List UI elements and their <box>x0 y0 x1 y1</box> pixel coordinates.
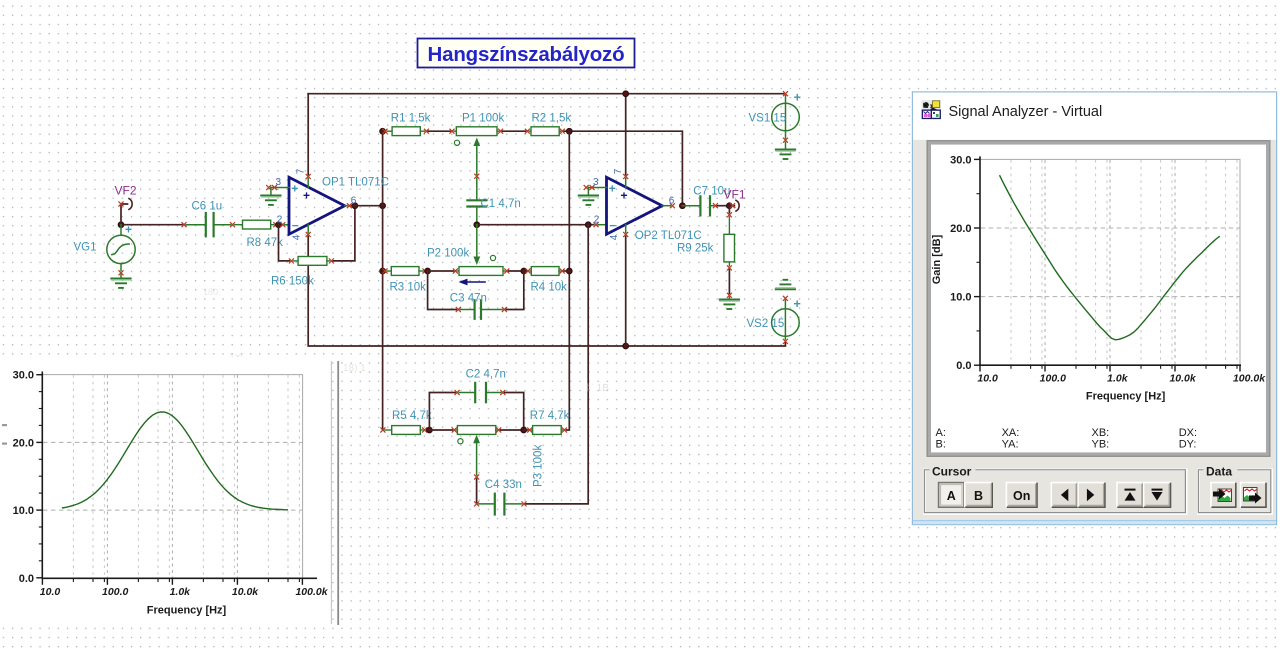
resistor R6 <box>293 257 329 266</box>
svg-text:B:: B: <box>936 439 946 451</box>
wire P3 wiper to C4 <box>476 479 478 504</box>
gain curve <box>1000 175 1220 340</box>
svg-text:+: + <box>621 189 628 203</box>
svg-text:−: − <box>609 218 616 232</box>
pin R1 left x-mark <box>383 129 387 133</box>
potentiometer P2 wiper arrow from C1 <box>473 225 480 265</box>
pin R6 left x-mark <box>289 259 293 263</box>
svg-text:+: + <box>125 223 132 237</box>
node P2 / R4 / C3 junction <box>521 268 527 274</box>
node C1 / P2 wiper / OP2 pin2 row <box>474 222 480 228</box>
resistor R2 <box>529 127 560 136</box>
button A (pressed) <box>939 483 964 508</box>
pin R7 left x-mark <box>528 428 532 432</box>
svg-text:6: 6 <box>351 196 357 207</box>
svg-text:4: 4 <box>292 234 303 240</box>
pin R7 right x-mark <box>562 428 566 432</box>
pin OP1 pin2 x-mark <box>281 223 285 227</box>
svg-text:DY:: DY: <box>1179 439 1197 451</box>
potentiometer P3 <box>456 426 496 444</box>
svg-text:B: B <box>974 489 983 503</box>
svg-text:18) 1: 18) 1 <box>343 363 366 374</box>
pin C4 right x-mark <box>522 502 526 506</box>
plot panel sunken frame <box>926 140 1270 457</box>
resistor R3 <box>387 267 423 276</box>
wire R6 feedback loop <box>279 225 290 261</box>
wire R6 to OP1 output <box>333 206 355 261</box>
resistor R8 <box>235 220 274 229</box>
svg-text:30.0: 30.0 <box>13 370 34 382</box>
svg-text:Gain [dB]: Gain [dB] <box>931 234 943 284</box>
pin C3 right x-mark <box>502 307 506 311</box>
x axis ticks <box>980 365 1240 371</box>
horizontal gridlines 10dB 20dB (dashed) <box>43 442 302 510</box>
svg-text:2: 2 <box>277 215 283 226</box>
wire OP2 pin7 to top rail <box>625 94 627 175</box>
wire OP2 pin4 to bottom rail <box>625 237 627 347</box>
svg-text:6: 6 <box>669 196 675 207</box>
title box Hangszinszabalyozo <box>418 39 635 68</box>
generator VG1 <box>107 225 135 271</box>
window body <box>912 92 1277 526</box>
minor vertical gridlines (dashed) <box>1011 160 1237 365</box>
pin P1 left x-mark <box>450 129 454 133</box>
button On <box>1006 483 1037 508</box>
svg-text:2: 2 <box>594 215 600 226</box>
svg-text:100.0k: 100.0k <box>295 586 328 598</box>
svg-text:R1 1,5k: R1 1,5k <box>391 113 431 125</box>
wire R9 to ground <box>728 270 730 293</box>
svg-text:Hangszínszabályozó: Hangszínszabályozó <box>428 43 625 66</box>
svg-text:A:: A: <box>936 427 946 439</box>
svg-text:4: 4 <box>609 234 620 240</box>
y axis ticks <box>36 375 42 578</box>
wire P2 to R4 junction <box>509 270 524 272</box>
svg-text:OP2 TL071C: OP2 TL071C <box>635 230 702 242</box>
svg-text:0.0: 0.0 <box>19 573 34 585</box>
op-amp OP1 <box>261 168 389 240</box>
wire top supply rail <box>308 93 783 95</box>
terminal VF1 stub and arc <box>729 205 734 207</box>
x axis labels <box>40 586 329 598</box>
node bottom rail / OP2 pin4 junction <box>623 343 629 349</box>
node OP2 pin2 / C4 junction <box>585 222 591 228</box>
wire bottom supply rail <box>308 237 785 347</box>
wire C7 to VF1 <box>717 205 729 207</box>
svg-text:1.0k: 1.0k <box>1107 373 1129 385</box>
pin OP1 3 stub + ground <box>271 187 289 189</box>
button jump-min <box>1144 483 1171 508</box>
pin R4 left x-mark <box>526 269 530 273</box>
svg-text:On: On <box>1013 489 1030 503</box>
svg-text:0.0: 0.0 <box>956 360 971 372</box>
pin R9 bottom x-mark <box>727 266 731 270</box>
svg-text:R3 10k: R3 10k <box>390 282 427 294</box>
svg-text:C6 1u: C6 1u <box>192 201 223 213</box>
svg-text:3: 3 <box>276 177 282 188</box>
wire OP1 output to left chain <box>352 205 383 207</box>
wire VG1 to C6 <box>121 224 182 226</box>
wire OP1 pin7 to top rail <box>307 94 309 175</box>
pin P2 left x-mark <box>453 269 457 273</box>
window bottom resize strip <box>913 521 1276 524</box>
capacitor C3 <box>460 300 502 319</box>
x axis <box>42 577 318 579</box>
pin R1 right x-mark <box>424 129 428 133</box>
wire R2 to OP2 output feedback <box>564 131 682 203</box>
resistor R5 <box>385 426 423 435</box>
wire R3 junction to P2 <box>428 270 454 272</box>
pin VF2 x-mark <box>119 202 123 206</box>
svg-text:Cursor: Cursor <box>932 464 972 478</box>
pin R5 right x-mark <box>423 428 427 432</box>
wire C2 loop left <box>429 393 455 431</box>
horizontal gridlines (dashed) <box>981 228 1240 297</box>
pin R2 left x-mark <box>525 129 529 133</box>
pin P3 left x-mark <box>452 428 456 432</box>
svg-text:ˈ180ˈ: ˈ180ˈ <box>200 287 221 297</box>
major vertical gridlines (dashed) <box>1045 160 1175 365</box>
svg-text:7: 7 <box>296 168 307 174</box>
pin OP2 4 x-mark <box>625 225 627 233</box>
pin C4 left x-mark <box>475 502 479 506</box>
x axis ticks <box>42 578 302 585</box>
capacitor C6 <box>186 213 231 236</box>
node VF2 / VG1 / C6 junction <box>118 222 124 228</box>
ground below VG1 <box>120 275 122 278</box>
op-amp OP2 <box>579 168 702 242</box>
node left chain / R1 corner <box>380 128 386 134</box>
x axis <box>979 364 1241 366</box>
pin OP2 2 x-mark <box>594 223 598 227</box>
svg-text:10.0k: 10.0k <box>232 586 259 598</box>
svg-text:R7 4,7k: R7 4,7k <box>530 410 570 422</box>
potentiometer P3 wiper arrow <box>473 435 480 475</box>
resistor R7 <box>532 426 563 435</box>
node OP1 pin2 junction <box>276 222 282 228</box>
cursor group box <box>924 464 1186 514</box>
svg-text:C3 47n: C3 47n <box>450 293 487 305</box>
svg-text:30.0: 30.0 <box>950 154 971 166</box>
svg-text:Data: Data <box>1206 464 1232 478</box>
wire C4 to OP2 pin2 vertical <box>526 225 588 504</box>
y axis ticks <box>974 159 980 365</box>
node left chain / R3 <box>380 268 386 274</box>
capacitor C2 <box>459 383 501 402</box>
svg-text:100.0: 100.0 <box>1040 373 1066 385</box>
diagram window edge lines <box>330 361 332 624</box>
svg-text:7: 7 <box>613 168 624 174</box>
svg-text:10.0: 10.0 <box>40 586 61 598</box>
svg-text:3: 3 <box>593 177 599 188</box>
svg-text:100.0: 100.0 <box>102 586 128 598</box>
pin R3 left x-mark <box>383 269 387 273</box>
svg-text:Signal Analyzer - Virtual: Signal Analyzer - Virtual <box>949 104 1103 120</box>
window icon (signal analyzer) <box>922 100 941 119</box>
svg-text:A: A <box>947 489 956 503</box>
svg-text:C1 4,7n: C1 4,7n <box>481 198 521 210</box>
node VF1 / R9 junction <box>727 203 733 209</box>
svg-text:VG1: VG1 <box>74 242 97 254</box>
pin R5 left x-mark <box>381 428 385 432</box>
diagram window white background <box>0 357 332 622</box>
pin P3 right x-mark <box>497 428 501 432</box>
svg-text:XB:: XB: <box>1092 427 1110 439</box>
svg-text:Frequency [Hz]: Frequency [Hz] <box>1086 391 1166 403</box>
pin C6 left x-mark <box>182 223 186 227</box>
window title bar <box>913 92 1277 140</box>
svg-text:YA:: YA: <box>1002 439 1019 451</box>
button data-export <box>1241 483 1266 508</box>
potentiometer P1 wiper arrow to C1 <box>473 138 480 175</box>
wire inverting row C1 to OP2 pin2 <box>477 224 594 226</box>
pin OP1 6 output x-mark <box>347 204 351 208</box>
plot panel white area <box>931 145 1266 453</box>
svg-text:P1 100k: P1 100k <box>462 113 504 125</box>
pin C6 right x-mark <box>230 223 234 227</box>
pin OP1 7 x-mark <box>306 174 310 178</box>
wire left vertical chain R1-R3-R5 <box>382 131 384 430</box>
svg-text:Frequency [Hz]: Frequency [Hz] <box>147 604 227 616</box>
y axis <box>979 156 981 365</box>
wire R4 to chain <box>564 270 569 272</box>
potentiometer P2 direction arrow <box>459 279 486 286</box>
gain curve <box>62 412 288 510</box>
pin R2 right x-mark <box>560 129 564 133</box>
resistor R9 (vertical) <box>724 206 735 266</box>
svg-text:XA:: XA: <box>1002 427 1020 439</box>
pin OP2 6 output x-mark <box>662 205 670 207</box>
pin VG1 bottom x-mark <box>119 271 123 275</box>
node top rail / OP2 pin7 junction <box>623 91 629 97</box>
y axis <box>41 372 43 579</box>
svg-text:+: + <box>794 91 801 105</box>
wire C3 loop left <box>428 271 457 310</box>
pin P2 right x-mark <box>505 269 509 273</box>
svg-text:R9 25k: R9 25k <box>677 243 714 255</box>
svg-text:R6 150k: R6 150k <box>271 276 314 288</box>
pin R3 right x-mark <box>423 269 427 273</box>
svg-text:VS1 15: VS1 15 <box>749 113 787 125</box>
pin R8 right x-mark <box>274 223 278 227</box>
voltage source VS1 <box>749 91 801 160</box>
button cursor-left <box>1051 483 1077 508</box>
svg-text:1.0k: 1.0k <box>170 586 192 598</box>
svg-text:‡ʾ 1B: ‡ʾ 1B <box>585 382 609 394</box>
wire output chain vertical R2-R4-R7 <box>567 131 570 430</box>
y axis labels <box>13 370 34 585</box>
wire junction to R7 <box>524 429 528 431</box>
potentiometer P2 <box>457 255 504 275</box>
wire R5 junction to P3 <box>429 429 452 431</box>
diagram window left-edge specks <box>2 424 7 426</box>
node R2 right / output chain <box>566 128 572 134</box>
minor vertical gridlines (dashed) <box>73 375 299 578</box>
cursor readout labels <box>936 427 1198 451</box>
button data-import <box>1211 483 1236 508</box>
pin R6 right x-mark <box>329 259 333 263</box>
pin C2 left x-mark <box>455 390 459 394</box>
y axis labels <box>950 154 971 372</box>
svg-text:VF1: VF1 <box>724 188 746 202</box>
wire P1 to R2 <box>503 130 526 132</box>
pin C7 right x-mark <box>713 204 717 208</box>
capacitor C1 <box>467 178 486 222</box>
pin OP1 4 x-mark <box>307 225 309 233</box>
button jump-max <box>1117 483 1143 508</box>
svg-text:VF2: VF2 <box>115 184 137 198</box>
svg-text:−: − <box>292 218 299 232</box>
svg-text:20.0: 20.0 <box>13 437 34 449</box>
svg-text:R4 10k: R4 10k <box>531 282 568 294</box>
svg-text:100.0k: 100.0k <box>1233 373 1266 385</box>
svg-text:R2 1,5k: R2 1,5k <box>532 113 572 125</box>
x axis labels <box>977 373 1266 385</box>
svg-text:OP1 TL071C: OP1 TL071C <box>322 177 389 189</box>
node R5 / P3 / C2 junction <box>427 427 433 433</box>
pin OP2 7 x-mark <box>624 174 628 178</box>
svg-text:P2 100k: P2 100k <box>427 248 469 260</box>
node P3 / R7 / C2 junction <box>521 427 527 433</box>
window border <box>912 92 1276 525</box>
node OP2 output junction <box>680 203 686 209</box>
node R3 / P2 / C3 junction <box>425 268 431 274</box>
node OP1 output junction <box>352 203 358 209</box>
svg-text:10.0k: 10.0k <box>1169 373 1196 385</box>
node output chain / R4 <box>566 268 572 274</box>
voltage source VS2 (inverted) <box>747 280 801 344</box>
wire R1 to P1 <box>428 130 450 132</box>
major vertical gridlines (dashed) <box>107 375 237 578</box>
svg-text:+: + <box>794 297 801 311</box>
svg-text:DX:: DX: <box>1179 427 1197 439</box>
svg-text:20.0: 20.0 <box>950 223 971 235</box>
pin P1 right x-mark <box>499 129 503 133</box>
node left chain / OP1 out <box>380 203 386 209</box>
svg-text:P3 100k: P3 100k <box>533 445 545 487</box>
resistor R1 <box>387 127 424 136</box>
wire OP1 pin2 stub <box>285 224 289 226</box>
svg-text:+: + <box>291 182 298 196</box>
capacitor C7 <box>682 196 713 215</box>
wire P3 to R7 junction <box>501 429 524 431</box>
plot frame (top/right) <box>42 375 302 579</box>
plot frame (top/right) <box>980 159 1240 365</box>
wire C3 loop right <box>506 271 523 310</box>
wire C2 loop right <box>505 393 524 431</box>
ground below R9 <box>728 297 730 299</box>
button B <box>965 483 992 508</box>
svg-text:C2 4,7n: C2 4,7n <box>466 369 506 381</box>
svg-text:R5 4,7k: R5 4,7k <box>392 410 432 422</box>
potentiometer P1 <box>454 127 499 146</box>
terminal VF2 open-pin arc <box>129 199 132 210</box>
svg-text:C4 33n: C4 33n <box>485 479 522 491</box>
pin R4 right x-mark <box>560 269 564 273</box>
button cursor-right <box>1078 483 1105 508</box>
svg-text:10.0: 10.0 <box>13 505 34 517</box>
svg-text:10.0: 10.0 <box>950 292 971 304</box>
pin C3 left x-mark <box>456 307 460 311</box>
svg-text:+: + <box>303 189 310 203</box>
pin OP2 3 stub + ground <box>588 187 606 189</box>
svg-text:VS2 15: VS2 15 <box>747 318 785 330</box>
resistor R4 <box>530 267 560 276</box>
svg-text:10.0: 10.0 <box>977 373 998 385</box>
capacitor C4 <box>479 494 522 515</box>
wire junction to R4 <box>524 270 526 272</box>
pin C2 right x-mark <box>501 390 505 394</box>
wire VF2 stub <box>121 204 128 225</box>
svg-text:YB:: YB: <box>1092 439 1110 451</box>
svg-text:+: + <box>609 182 616 196</box>
data group box <box>1198 464 1271 514</box>
